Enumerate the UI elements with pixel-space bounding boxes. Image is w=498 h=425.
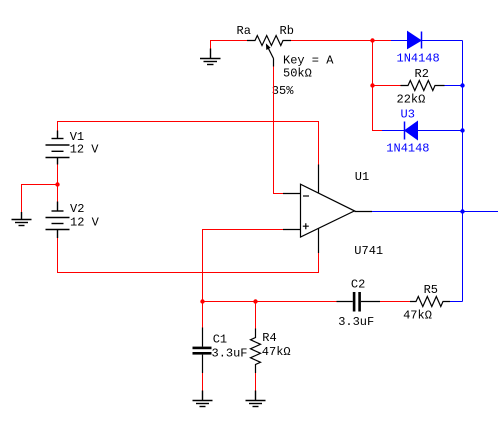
potentiometer Ra/Rb body — [247, 36, 291, 46]
ground (top left, under pot) — [200, 49, 221, 65]
svg-text:R2: R2 — [415, 67, 429, 81]
node junction dot bottom left — [200, 299, 204, 303]
wire: C1 to ground (red) — [202, 373, 204, 391]
right vertical bus (blue) — [462, 41, 464, 302]
op-amp minus sign — [303, 195, 309, 197]
op-amp U1 triangle — [301, 184, 355, 237]
node junction dot at R4 top — [253, 299, 257, 303]
op-amp non-inverting input lead (black) — [283, 229, 301, 231]
svg-text:35%: 35% — [272, 84, 294, 98]
wire: non-inverting input left and down to bottom node (red) — [203, 230, 284, 302]
diode D1 1N4148 (top, pointing right, blue) — [408, 32, 422, 49]
wire: R5 to bus corner (blue) — [450, 301, 463, 303]
ground (under C1) — [193, 391, 213, 407]
svg-text:R4: R4 — [262, 331, 276, 345]
op-amp output lead (black) — [355, 211, 373, 213]
ground (left, between batteries) — [12, 212, 32, 226]
svg-text:50kΩ: 50kΩ — [283, 66, 312, 80]
wire: V2- down and along bottom supply rail to op-amp V- pin (red) — [58, 238, 319, 273]
resistor R5 — [410, 297, 450, 307]
wire: pot wiper down to inverting input (red) — [274, 67, 284, 194]
battery V2 12V — [46, 202, 70, 239]
wire: R4 to ground (red) — [255, 373, 257, 391]
diode U3 1N4148 (pointing left, blue) — [405, 122, 418, 140]
op-amp plus sign — [303, 223, 309, 229]
wire: bottom node to C2 (red) — [203, 301, 337, 303]
node junction dot at top branch — [370, 38, 374, 42]
resistor R4 — [251, 329, 261, 374]
svg-text:R5: R5 — [424, 283, 438, 297]
svg-text:12 V: 12 V — [70, 142, 100, 156]
svg-text:U1: U1 — [355, 170, 369, 184]
node junction dot U3/bus — [460, 128, 464, 132]
wire: bottom node down to R4 (red) — [255, 302, 257, 329]
wire: ground to potentiometer Ra left lead (red) — [210, 41, 247, 49]
capacitor C2 — [337, 292, 381, 312]
wire: U3 anode to bus (blue) — [418, 130, 463, 132]
svg-text:1N4148: 1N4148 — [397, 52, 440, 66]
potentiometer wiper arrow — [266, 43, 274, 66]
svg-text:47kΩ: 47kΩ — [262, 345, 291, 359]
wire: branch down from top wire to R2 (red) — [372, 41, 374, 86]
wire: junction to left ground (red) — [22, 185, 58, 213]
op-amp inverting input lead (black) — [283, 193, 301, 195]
svg-text:3.3uF: 3.3uF — [212, 347, 248, 361]
wire: pot Rb to diode anode (red then blue) — [291, 40, 408, 42]
wire: R2 right to bus (blue) — [445, 85, 463, 87]
node junction dot between V1 and V2 — [55, 182, 59, 186]
capacitor C1 — [193, 328, 212, 374]
wire: top supply rail V1+ to op-amp V+ pin (red) — [58, 122, 319, 165]
wire: bottom node down to C1 (red) — [202, 302, 204, 328]
wire: diode cathode to right bus (blue) — [422, 40, 463, 42]
svg-text:U741: U741 — [354, 244, 383, 258]
svg-text:22kΩ: 22kΩ — [397, 93, 426, 107]
battery V1 12V — [46, 131, 70, 165]
svg-text:47kΩ: 47kΩ — [403, 308, 432, 322]
svg-text:V2: V2 — [70, 202, 84, 216]
wire: red branch down and to U3 cathode (red then blue) — [373, 86, 405, 131]
resistor R2 — [401, 81, 445, 91]
svg-text:1N4148: 1N4148 — [386, 141, 429, 155]
svg-text:U3: U3 — [401, 108, 415, 122]
wire: C2 to R5 (red) — [380, 301, 410, 303]
op-amp V+ power pin (black) — [318, 165, 320, 193]
node junction dot output/bus — [460, 209, 464, 213]
svg-text:C1: C1 — [213, 333, 227, 347]
svg-text:12 V: 12 V — [70, 216, 100, 230]
op-amp V- power pin (black) — [318, 228, 320, 253]
node junction dot at R2 left branch — [370, 83, 374, 87]
svg-text:Rb: Rb — [280, 24, 294, 38]
wire: V1- to V2+ (red) — [57, 165, 59, 202]
wire: branch to R2 left (red) — [373, 85, 401, 87]
svg-text:3.3uF: 3.3uF — [338, 315, 374, 329]
ground (under R4) — [246, 391, 266, 407]
wire: op-amp output (blue) to right edge — [372, 211, 498, 213]
svg-text:C2: C2 — [351, 278, 365, 292]
node junction dot R2/bus — [460, 83, 464, 87]
svg-text:Ra: Ra — [237, 24, 251, 38]
